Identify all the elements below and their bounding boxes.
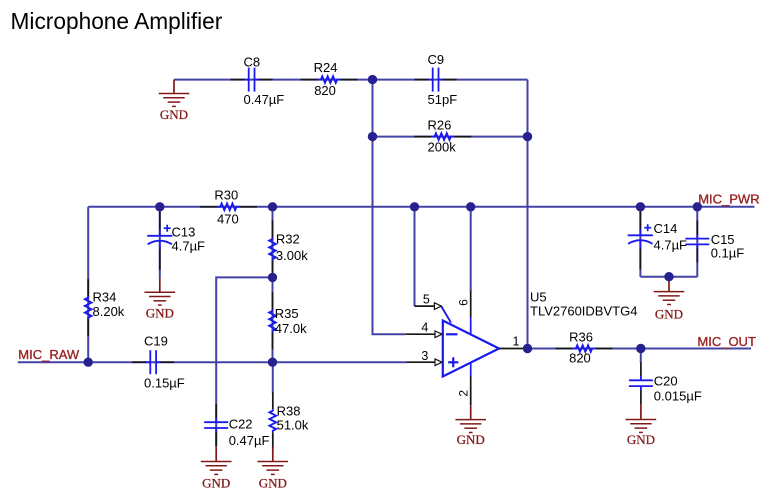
svg-text:R35: R35 bbox=[275, 306, 299, 321]
svg-text:GND: GND bbox=[457, 432, 485, 447]
svg-text:GND: GND bbox=[627, 432, 655, 447]
resistor R32 bbox=[269, 221, 308, 278]
capacitor C14 bbox=[628, 211, 687, 269]
capacitor C9 bbox=[415, 52, 458, 107]
svg-text:R38: R38 bbox=[277, 403, 301, 418]
capacitor C8 bbox=[231, 55, 285, 108]
svg-text:R34: R34 bbox=[93, 290, 117, 305]
capacitor C20 bbox=[629, 362, 702, 404]
svg-text:8.20k: 8.20k bbox=[93, 304, 125, 319]
node R32 R35 bbox=[268, 273, 277, 282]
svg-text:C8: C8 bbox=[244, 55, 261, 70]
node C13 top bbox=[155, 202, 164, 211]
node C20 MIC_OUT bbox=[636, 344, 645, 353]
wire R26 row bbox=[373, 136, 528, 138]
svg-text:2: 2 bbox=[457, 390, 471, 397]
svg-text:TLV2760IDBVTG4: TLV2760IDBVTG4 bbox=[530, 303, 637, 318]
node C15 top MIC_PWR bbox=[693, 202, 702, 211]
wire left vertical bbox=[87, 207, 89, 362]
wire R32 R35 column bbox=[272, 207, 274, 362]
pin 2 lead bbox=[470, 362, 472, 376]
svg-text:51.0k: 51.0k bbox=[277, 418, 309, 433]
wire top row bbox=[174, 79, 528, 81]
svg-text:4: 4 bbox=[421, 320, 428, 334]
wire C14 stub bbox=[639, 207, 641, 277]
node MIC_RAW R34 bbox=[84, 358, 93, 367]
capacitor C19 bbox=[132, 334, 185, 391]
svg-text:820: 820 bbox=[314, 83, 336, 98]
node pin6 bbox=[466, 202, 475, 211]
svg-text:4.7µF: 4.7µF bbox=[654, 237, 688, 252]
capacitor C22 bbox=[204, 404, 269, 448]
svg-text:6: 6 bbox=[457, 299, 471, 306]
resistor R24 bbox=[301, 60, 358, 98]
wire MIC_RAW row bbox=[18, 361, 407, 363]
svg-text:C14: C14 bbox=[654, 221, 678, 236]
node C14 top bbox=[636, 202, 645, 211]
svg-text:4.7µF: 4.7µF bbox=[172, 239, 206, 254]
svg-text:0.1µF: 0.1µF bbox=[711, 246, 745, 261]
pin 1 lead bbox=[499, 348, 528, 350]
svg-text:5: 5 bbox=[423, 292, 430, 306]
svg-text:3: 3 bbox=[421, 349, 428, 363]
ground C22 bbox=[201, 447, 232, 491]
pin 6 lead bbox=[470, 291, 472, 317]
svg-text:1: 1 bbox=[513, 335, 520, 349]
svg-text:R30: R30 bbox=[214, 187, 238, 202]
node output bbox=[523, 344, 532, 353]
svg-text:GND: GND bbox=[160, 107, 188, 122]
node pin5 branch bbox=[410, 202, 419, 211]
svg-text:MIC_OUT: MIC_OUT bbox=[697, 334, 756, 349]
ground op-amp bbox=[455, 405, 486, 447]
svg-text:C9: C9 bbox=[428, 52, 445, 67]
svg-text:C22: C22 bbox=[229, 417, 253, 432]
svg-text:GND: GND bbox=[259, 475, 287, 490]
svg-text:GND: GND bbox=[146, 306, 174, 321]
svg-text:200k: 200k bbox=[428, 140, 457, 155]
pin 3 lead bbox=[407, 361, 436, 363]
wire pin5 branch bbox=[414, 207, 416, 306]
svg-text:Microphone Amplifier: Microphone Amplifier bbox=[11, 8, 223, 34]
svg-text:R24: R24 bbox=[314, 60, 338, 75]
wire feedback to pin4 bbox=[373, 80, 406, 335]
ground R38 bbox=[258, 447, 289, 491]
pin 5 lead bbox=[415, 305, 435, 307]
ground top left bbox=[159, 80, 190, 122]
wire C15 stub bbox=[696, 207, 698, 277]
wire C20 stub bbox=[640, 349, 642, 364]
svg-text:C19: C19 bbox=[144, 334, 168, 349]
plus bbox=[448, 361, 458, 363]
resistor R26 bbox=[414, 118, 471, 155]
wire C14 C15 bottom bbox=[640, 276, 697, 278]
resistor R35 bbox=[269, 292, 307, 349]
svg-text:820: 820 bbox=[569, 351, 591, 366]
minus bbox=[446, 333, 458, 335]
capacitor C13 bbox=[147, 212, 205, 270]
resistor R38 bbox=[270, 392, 309, 449]
svg-text:3.00k: 3.00k bbox=[276, 248, 308, 263]
node R26 right bbox=[523, 132, 532, 141]
resistor R30 bbox=[200, 187, 257, 226]
wire C13 stem bbox=[159, 207, 161, 278]
svg-text:U5: U5 bbox=[530, 290, 547, 305]
op-amp U5 bbox=[406, 290, 638, 406]
svg-text:0.47µF: 0.47µF bbox=[244, 92, 285, 107]
svg-text:MIC_RAW: MIC_RAW bbox=[18, 347, 80, 362]
node R24/C9/feedback bbox=[368, 75, 377, 84]
svg-text:C13: C13 bbox=[172, 225, 196, 240]
wire output row bbox=[528, 348, 752, 350]
svg-text:R32: R32 bbox=[276, 232, 300, 247]
resistor R34 bbox=[85, 279, 125, 336]
svg-text:R26: R26 bbox=[428, 118, 452, 133]
svg-text:MIC_PWR: MIC_PWR bbox=[698, 192, 759, 207]
svg-text:C20: C20 bbox=[654, 374, 678, 389]
wire C22 branch bbox=[216, 277, 272, 446]
node R26 left bbox=[368, 132, 377, 141]
svg-text:0.47µF: 0.47µF bbox=[229, 433, 270, 448]
ground C20 bbox=[626, 404, 657, 447]
svg-text:GND: GND bbox=[655, 306, 683, 321]
ground C14 C15 bbox=[654, 277, 685, 322]
wire R38 branch bbox=[272, 362, 274, 393]
svg-text:470: 470 bbox=[217, 212, 239, 227]
node R35 R38 pin3 bbox=[268, 358, 277, 367]
wire mid power row bbox=[88, 206, 754, 208]
node R32 top bbox=[268, 202, 277, 211]
svg-text:GND: GND bbox=[202, 475, 230, 490]
svg-text:0.15µF: 0.15µF bbox=[144, 376, 185, 391]
wire right feedback vertical bbox=[527, 80, 529, 349]
node C14 C15 gnd bbox=[664, 272, 673, 281]
svg-text:51pF: 51pF bbox=[428, 92, 458, 107]
pin 4 lead bbox=[406, 333, 435, 335]
svg-text:47.0k: 47.0k bbox=[275, 321, 307, 336]
resistor R36 bbox=[556, 330, 613, 366]
svg-text:R36: R36 bbox=[569, 330, 593, 345]
wire pin6 stub bbox=[470, 207, 472, 291]
capacitor C15 bbox=[685, 221, 744, 263]
svg-text:0.015µF: 0.015µF bbox=[654, 389, 702, 404]
ground C13 bbox=[145, 278, 176, 321]
